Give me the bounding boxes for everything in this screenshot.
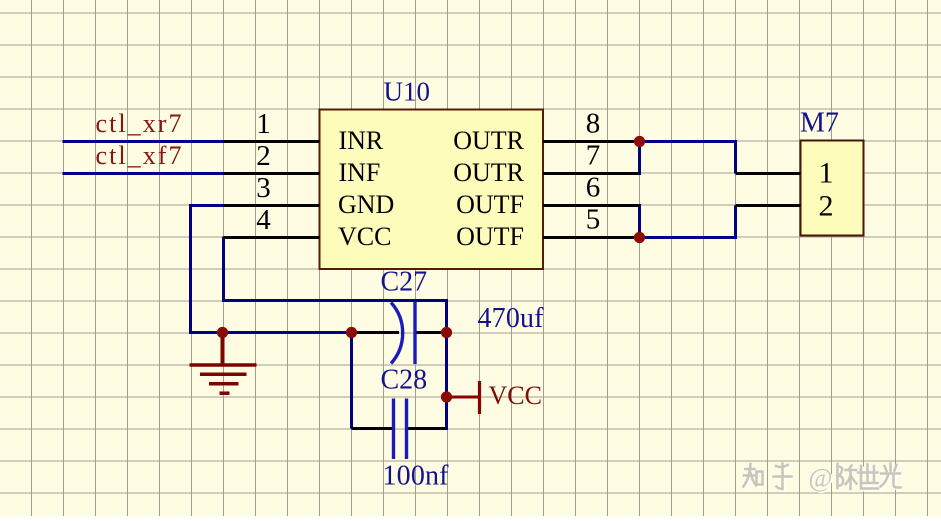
svg-text:2: 2 [256,140,271,172]
U10 pin 2 [224,172,320,175]
wire pin4 VCC net [224,237,447,431]
U10 pin 8 [543,140,640,143]
svg-text:ctl_xf7: ctl_xf7 [96,141,182,170]
U10 pin 3 [224,204,320,207]
svg-text:INR: INR [339,126,384,155]
M7 pin 1 [736,172,801,175]
svg-text:OUTF: OUTF [456,190,524,219]
U10 pin 5 [543,236,640,239]
junction dot pin8 [634,136,645,147]
capacitor C28 plate left [392,399,395,460]
connector M7 body [801,141,864,236]
capacitor C27 pins [352,331,447,334]
M7 pin 2 [736,204,801,207]
junction dot C27 left [346,327,357,338]
U10 pin 1 [224,140,320,143]
ground symbol [190,333,257,394]
svg-text:7: 7 [586,140,601,172]
svg-text:1: 1 [819,157,834,190]
wire pins 7-8 tie [640,142,736,176]
svg-text:@: @ [809,464,833,493]
svg-text:2: 2 [819,190,834,223]
capacitor C28 plate right [405,399,408,460]
svg-text:ctl_xr7: ctl_xr7 [96,109,182,138]
U10 pin 6 [543,204,640,207]
junction dot pin5 [634,232,645,243]
wire net ctl_xf7 [63,172,226,175]
svg-text:VCC: VCC [489,381,542,410]
junction dot VCC [441,391,452,402]
svg-text:M7: M7 [800,108,839,139]
wire C28 left vertical [350,331,353,429]
svg-text:470uf: 470uf [478,303,545,334]
wire net ctl_xr7 [63,140,226,143]
svg-text:100nf: 100nf [383,461,450,492]
svg-text:6: 6 [586,172,601,204]
capacitor C28 pins [352,427,447,430]
svg-text:4: 4 [256,204,271,236]
U10 pin 4 [224,236,320,239]
svg-text:INF: INF [339,158,381,187]
capacitor C27 curved plate [391,303,403,364]
svg-text:U10: U10 [384,77,431,107]
svg-text:C27: C27 [381,267,428,298]
power port VCC [447,396,479,399]
op-amp U10 body [320,110,544,270]
wire pins 5-6 tie [640,204,736,238]
U10 pin 7 [543,172,640,175]
junction dot pin3/gnd [217,327,228,338]
svg-text:OUTR: OUTR [453,126,524,155]
svg-text:OUTR: OUTR [453,158,524,187]
svg-text:1: 1 [256,108,271,140]
svg-text:GND: GND [338,190,394,219]
capacitor C27 straight plate [413,302,416,365]
wire pin3 GND net [191,206,354,333]
svg-text:C28: C28 [381,365,428,396]
svg-text:3: 3 [256,172,271,204]
svg-text:5: 5 [586,204,601,236]
svg-text:VCC: VCC [338,222,391,251]
svg-text:8: 8 [586,108,601,140]
junction dot C27 right [441,327,452,338]
svg-text:OUTF: OUTF [456,222,524,251]
